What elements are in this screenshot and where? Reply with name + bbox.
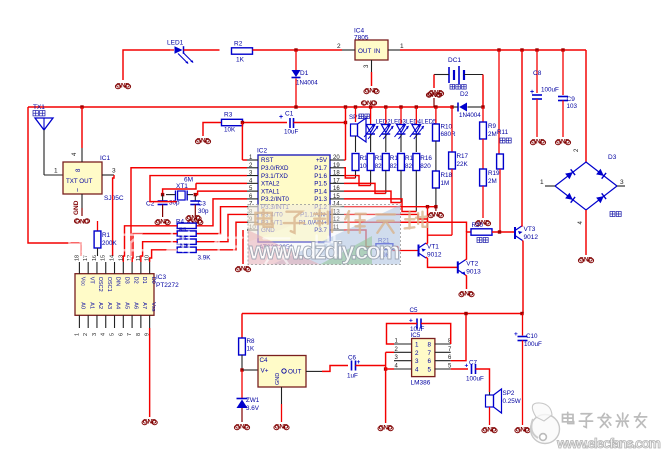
junction D2 cathode / rail end xyxy=(450,105,453,108)
wire R3 to C1 xyxy=(243,122,288,124)
svg-text:IC3: IC3 xyxy=(156,274,167,281)
wire VT2 emitter to ground xyxy=(465,275,466,289)
wire R2 to IC4 pin2 xyxy=(253,49,343,51)
wire IC2 pin8 to resistor network row3 xyxy=(196,214,247,241)
wire IC2 pin6 to resistor network row1 xyxy=(196,199,247,226)
svg-text:P1.7: P1.7 xyxy=(314,165,327,172)
svg-text:VT1: VT1 xyxy=(427,244,439,251)
ground G18 (below ZW1) xyxy=(234,424,249,431)
LED LED3 xyxy=(379,107,406,152)
svg-text:IC1: IC1 xyxy=(100,155,111,162)
ground G22 (below C10) xyxy=(515,427,530,434)
junction pin6 tap xyxy=(464,312,467,315)
resistor R16 820 xyxy=(413,154,432,212)
wire audio +V line y313.5 xyxy=(242,313,522,315)
svg-text:R16: R16 xyxy=(420,155,432,162)
svg-text:IC2: IC2 xyxy=(257,148,268,155)
ground G5 (below C9) xyxy=(555,139,570,146)
capacitor C1 10uF xyxy=(279,111,299,136)
svg-text:4: 4 xyxy=(578,221,584,225)
resistor R15 820 xyxy=(398,154,417,203)
wire LM386 pin6 to +V xyxy=(451,314,466,361)
svg-text:2M: 2M xyxy=(488,131,497,138)
ground G19 (C4 box) xyxy=(274,424,289,431)
watermark tan glyph row xyxy=(255,210,427,233)
svg-text:1: 1 xyxy=(74,333,80,336)
wire junction to C4 box V+ xyxy=(242,369,258,371)
wires network left to IC3 pins xyxy=(123,226,177,262)
wire IC2 pin7 to resistor network row2 xyxy=(196,207,247,234)
svg-text:A2: A2 xyxy=(97,302,103,309)
wire LM386 pin5 to C7 xyxy=(451,368,468,370)
svg-text:14: 14 xyxy=(110,255,116,261)
junction crystal right xyxy=(194,193,197,196)
capacitor C8 100uF xyxy=(530,50,559,137)
svg-text:100uF: 100uF xyxy=(466,376,484,383)
junction audio +V node xyxy=(520,312,523,315)
diode D1 1N4004 xyxy=(292,50,319,107)
junction D2 anode / R9 top xyxy=(481,105,484,108)
wire bridge bottom to ground xyxy=(585,210,587,255)
svg-text:+: + xyxy=(465,363,469,370)
wire C7 to SP2 xyxy=(476,369,490,392)
wire IC1 pin2 to ground xyxy=(81,208,83,216)
svg-text:IC4: IC4 xyxy=(354,28,365,35)
svg-text:R18: R18 xyxy=(441,172,453,179)
svg-text:6: 6 xyxy=(118,333,124,336)
svg-text:VT2: VT2 xyxy=(466,260,478,267)
svg-text:8: 8 xyxy=(428,342,432,349)
svg-text:A4: A4 xyxy=(115,302,121,309)
svg-text:VT3: VT3 xyxy=(524,226,536,233)
ground G11 (below C2) xyxy=(155,219,170,226)
resistor network R4 R5 R6 R7 xyxy=(176,215,211,262)
wire R21 to VT1 base xyxy=(393,246,398,248)
svg-text:15: 15 xyxy=(101,255,107,261)
svg-text:R1: R1 xyxy=(102,232,111,239)
svg-text:100uF: 100uF xyxy=(524,341,542,348)
wire C4 box bottom pin to ground xyxy=(281,387,283,422)
antenna TX1 xyxy=(33,104,53,175)
wire R15 to IC2 pin16 xyxy=(344,191,401,202)
capacitor C3 30p xyxy=(190,195,209,217)
wire IC3 Vss to ground xyxy=(149,328,151,417)
capacitor C2 30p xyxy=(146,195,180,217)
svg-text:C10: C10 xyxy=(526,333,538,340)
resistor R2 1K xyxy=(232,41,253,64)
bridge rectifier D3 xyxy=(540,148,625,225)
svg-text:2: 2 xyxy=(337,43,341,50)
zener ZW1 3.6V xyxy=(237,370,260,422)
svg-text:R19: R19 xyxy=(488,170,500,177)
svg-text:9012: 9012 xyxy=(427,252,442,259)
svg-text:4: 4 xyxy=(415,367,419,374)
svg-text:1uF: 1uF xyxy=(347,373,358,380)
svg-text:3: 3 xyxy=(415,358,419,365)
svg-text:P1.3: P1.3 xyxy=(314,196,327,203)
wire left rail down xyxy=(28,107,81,256)
resistor R18 1M xyxy=(433,171,453,207)
svg-text:SP2: SP2 xyxy=(503,390,515,397)
wire C1 right to +5V drop xyxy=(294,122,346,124)
ground G14 (R18 bottom) xyxy=(428,207,443,219)
watermark elecfans logo xyxy=(531,403,560,444)
wire VT1 collector xyxy=(426,207,428,244)
ground G20 (LM386 input) xyxy=(378,425,393,432)
wire VT1 emitter to VT2 base xyxy=(426,257,458,267)
svg-text:C1: C1 xyxy=(285,111,294,118)
resistor R19 2M xyxy=(480,169,500,218)
svg-text:1K: 1K xyxy=(247,346,256,353)
svg-text:5: 5 xyxy=(428,367,432,374)
crystal XT1 6M xyxy=(166,177,193,201)
svg-text:A5: A5 xyxy=(124,302,130,309)
wire LED1 to R2 xyxy=(184,49,220,51)
resistor R20 xyxy=(471,222,492,243)
watermark white glyph row xyxy=(69,232,341,264)
svg-text:1N4004: 1N4004 xyxy=(459,112,481,119)
svg-text:4: 4 xyxy=(72,152,78,156)
resistor R17 22K xyxy=(449,107,469,235)
svg-text:P3.2/INT0: P3.2/INT0 xyxy=(261,196,289,203)
svg-text:~: ~ xyxy=(75,188,82,192)
capacitor C7 100uF xyxy=(465,360,485,383)
resistor R9 2M xyxy=(480,107,497,169)
wire R17 bottom jog to VT1 collector xyxy=(428,234,453,236)
wire IC2 pin4 XTAL2 xyxy=(196,182,247,184)
svg-text:10K: 10K xyxy=(224,127,236,134)
wire VT3 collector from +V rail xyxy=(521,50,524,227)
svg-text:680R: 680R xyxy=(441,131,457,138)
svg-text:OSC2: OSC2 xyxy=(97,277,103,292)
ground G2 (below IC4) xyxy=(364,88,379,95)
svg-text:1: 1 xyxy=(415,342,419,349)
svg-text:16: 16 xyxy=(333,186,340,192)
wire antenna to IC1 pin1 xyxy=(44,174,63,176)
junction crystal left xyxy=(161,193,164,196)
svg-text:2: 2 xyxy=(574,148,580,152)
svg-text:10uF: 10uF xyxy=(410,326,425,333)
svg-text:LM386: LM386 xyxy=(411,380,431,387)
svg-text:V+: V+ xyxy=(261,368,269,375)
ground G6 (below bridge D3) xyxy=(578,257,593,264)
svg-text:A1: A1 xyxy=(88,302,94,309)
svg-text:1M: 1M xyxy=(441,180,450,187)
svg-text:P3.0/RXD: P3.0/RXD xyxy=(261,165,289,172)
svg-text:D3: D3 xyxy=(608,154,617,161)
wire IC1 pin3 down to IC3 xyxy=(113,175,114,256)
svg-text:D1: D1 xyxy=(141,277,147,284)
junction R8/ZW1/C4 box xyxy=(240,368,243,371)
ground G10 (below IC1, rotated label) xyxy=(73,200,90,225)
svg-text:R10: R10 xyxy=(441,124,453,131)
LED LED2 xyxy=(364,107,391,152)
svg-text:30p: 30p xyxy=(169,200,180,207)
resistor R10 680R xyxy=(433,107,457,171)
svg-text:R3: R3 xyxy=(224,112,233,119)
resistor R11 xyxy=(497,50,512,233)
svg-text:TX1: TX1 xyxy=(33,104,45,111)
svg-text:100uF: 100uF xyxy=(541,87,559,94)
svg-text:C5: C5 xyxy=(410,307,419,314)
svg-text:19: 19 xyxy=(333,163,340,169)
watermark dzdiy collage box xyxy=(248,205,401,265)
svg-text:LED1: LED1 xyxy=(167,40,184,47)
svg-text:OUT: OUT xyxy=(358,48,371,55)
svg-text:20: 20 xyxy=(333,155,340,161)
junction pin14/R18 xyxy=(434,205,437,208)
junction pin14/VT1 collector xyxy=(426,205,429,208)
svg-text:Vcc: Vcc xyxy=(80,277,86,286)
svg-text:OSC1: OSC1 xyxy=(106,277,112,292)
ground G15 (below R19) xyxy=(475,220,490,227)
svg-text:TXT OUT: TXT OUT xyxy=(66,178,93,185)
svg-text:7: 7 xyxy=(428,350,432,357)
watermark elecfans glyph row xyxy=(563,412,647,427)
junction rail dots xyxy=(80,105,83,108)
amplifier IC5 LM386 xyxy=(394,332,452,387)
svg-text:4: 4 xyxy=(101,333,107,336)
wire C4 box OUT to C6 xyxy=(306,366,348,372)
transistor VT1 9012 xyxy=(393,243,442,259)
junction dots on +V rail xyxy=(497,48,500,51)
svg-text:2M: 2M xyxy=(488,178,497,185)
svg-text:DC1: DC1 xyxy=(448,57,461,64)
svg-text:Vss: Vss xyxy=(150,302,156,311)
wire DC1 left to ground xyxy=(433,75,435,89)
svg-text:PT2272: PT2272 xyxy=(156,282,179,289)
svg-text:R8: R8 xyxy=(247,338,256,345)
svg-text:D0: D0 xyxy=(150,277,156,284)
transistor VT2 9013 xyxy=(458,260,481,276)
wire top-left feed to GND xyxy=(123,50,170,80)
svg-text:17: 17 xyxy=(333,178,340,184)
wire DC1 right down to D2 xyxy=(482,75,484,108)
ground G7 (left of R3) xyxy=(195,138,210,145)
module IC1 SJ05C transmitter xyxy=(54,148,124,208)
svg-text:0.25W: 0.25W xyxy=(503,398,521,405)
svg-text:C8: C8 xyxy=(533,70,542,77)
svg-text:GND: GND xyxy=(275,373,281,385)
svg-text:200K: 200K xyxy=(102,240,118,247)
svg-text:103: 103 xyxy=(567,103,578,110)
svg-text:R9: R9 xyxy=(488,123,497,130)
svg-text:D1: D1 xyxy=(300,70,309,77)
resistor R12 100 xyxy=(352,154,371,179)
svg-text:15: 15 xyxy=(333,194,340,200)
svg-text:3: 3 xyxy=(92,333,98,336)
wire IC2 pin3 to crystal area xyxy=(150,176,247,202)
wire ground rail y107 xyxy=(28,106,452,108)
svg-text:SJ05C: SJ05C xyxy=(104,195,124,202)
resistor R14 820 xyxy=(382,154,401,194)
svg-text:1K: 1K xyxy=(236,57,245,64)
wire XTAL1 to IC2 pin5 xyxy=(195,191,247,195)
ground G8 (on rail) xyxy=(361,100,376,107)
svg-text:GND: GND xyxy=(75,219,89,226)
svg-text:820: 820 xyxy=(420,163,431,170)
svg-text:XTAL2: XTAL2 xyxy=(261,181,280,188)
module C4 voice chip xyxy=(258,356,306,388)
wire R20 right to VT3 base xyxy=(492,231,515,233)
wire IC2 pin2 down-left to IC3 xyxy=(131,168,247,256)
svg-text:R11: R11 xyxy=(497,129,509,136)
LED LED4 xyxy=(395,107,422,152)
ground G4 (below C8) xyxy=(530,139,545,146)
svg-text:2: 2 xyxy=(415,350,419,357)
wire IC2 pin1 from R3/C1 junction xyxy=(241,123,243,161)
wire IC2 pin13 to VT1 collector line xyxy=(344,214,428,219)
capacitor C6 1uF xyxy=(347,355,361,380)
ground G21 (below SP2) xyxy=(482,427,497,434)
wire R16 to IC2 pin15 xyxy=(344,199,416,212)
svg-text:A0: A0 xyxy=(80,302,86,309)
mcu IC2 AT89C2051 xyxy=(247,148,344,252)
svg-text:18: 18 xyxy=(333,171,340,177)
resistor R3 10K xyxy=(222,112,243,134)
resistor R21 3.9K xyxy=(376,238,393,260)
svg-text:3: 3 xyxy=(620,179,624,186)
LED LED1 xyxy=(167,40,194,65)
wire IC4 pin3 to ground xyxy=(371,72,373,86)
svg-text:A6: A6 xyxy=(132,302,138,309)
svg-text:+: + xyxy=(279,114,283,121)
junction R3/C1 to IC2 pin1 xyxy=(241,121,244,124)
svg-text:C6: C6 xyxy=(348,355,357,362)
svg-text:6: 6 xyxy=(428,358,432,365)
wire +V rail corner down to bridge top xyxy=(585,50,587,162)
svg-text:1N4004: 1N4004 xyxy=(296,80,318,87)
wire IC2 pin14 to R18 bottom xyxy=(344,206,436,208)
svg-text:7: 7 xyxy=(127,333,133,336)
wire IC2 pin12 to VT2 collector node xyxy=(344,222,467,232)
svg-text:R20: R20 xyxy=(472,222,484,229)
resistor R1 200K xyxy=(94,221,117,256)
svg-text:VT: VT xyxy=(88,277,94,285)
svg-text:3: 3 xyxy=(364,64,370,68)
svg-text:3.6V: 3.6V xyxy=(246,405,260,412)
svg-text:+5V: +5V xyxy=(316,157,328,164)
decoder IC3 PT2272 xyxy=(74,255,179,336)
wire C6 to LM386 input node xyxy=(356,365,386,367)
wire +V top rail from IC4 pin1 xyxy=(400,49,586,51)
wire R12 to IC2 pin19 xyxy=(344,168,356,178)
svg-text:8: 8 xyxy=(136,333,142,336)
svg-text:D2: D2 xyxy=(132,277,138,284)
svg-text:2: 2 xyxy=(83,333,89,336)
svg-text:P1.4: P1.4 xyxy=(314,188,327,195)
svg-text:OUT: OUT xyxy=(288,369,301,376)
wire VT2 collector to R20 left xyxy=(465,232,471,260)
resistor R8 1K xyxy=(239,338,255,370)
ground G1 (left of LED1) xyxy=(115,83,130,90)
capacitor C10 100uF xyxy=(514,314,542,426)
svg-text:P3.1/TXD: P3.1/TXD xyxy=(261,173,288,180)
diode D2 1N4004 xyxy=(452,91,483,119)
svg-text:10uF: 10uF xyxy=(284,129,299,136)
svg-text:www.elecfans.com: www.elecfans.com xyxy=(556,435,661,451)
ground G16 (VT2 emitter) xyxy=(459,291,474,298)
ground G13 (IC2 pin10) xyxy=(235,266,250,273)
svg-text:3.9K: 3.9K xyxy=(198,255,212,262)
svg-text:D2: D2 xyxy=(460,91,469,98)
wire R3 left to ground xyxy=(203,123,222,137)
resistor R13 820 xyxy=(367,154,386,186)
svg-text:3: 3 xyxy=(112,168,116,175)
wire IC1 pin4 to rail xyxy=(81,107,83,148)
wire IC2 pin11 to R21 xyxy=(344,230,374,247)
wire R8 top xyxy=(241,314,243,339)
ground G12 (below C3) xyxy=(188,219,203,226)
junction LM386 input node xyxy=(384,367,387,370)
svg-text:22K: 22K xyxy=(457,161,469,168)
svg-text:+: + xyxy=(530,89,534,96)
svg-text:IN: IN xyxy=(374,48,381,55)
capacitor C9 103 xyxy=(558,50,578,137)
junction R20/R11/VT3 xyxy=(498,230,501,233)
svg-text:+: + xyxy=(514,331,518,338)
svg-text:R5: R5 xyxy=(179,228,186,234)
battery DC1 (battery socket) xyxy=(434,57,483,89)
svg-text:D3: D3 xyxy=(124,277,130,284)
svg-text:9012: 9012 xyxy=(524,234,539,241)
capacitor C5 10uF xyxy=(387,307,451,344)
ground G9 (on rail right) xyxy=(426,92,441,107)
svg-text:7: 7 xyxy=(448,347,452,353)
svg-text:P1.5: P1.5 xyxy=(314,181,327,188)
svg-text:1: 1 xyxy=(400,43,404,50)
svg-text:C4: C4 xyxy=(260,357,269,364)
svg-text:1: 1 xyxy=(54,168,58,175)
wire IC2 pin10 to ground xyxy=(242,230,244,264)
svg-text:1: 1 xyxy=(540,179,544,186)
svg-text:A7: A7 xyxy=(141,302,147,309)
junction C1 line at +5V drop xyxy=(344,121,347,124)
ground G17 (IC3 Vss) xyxy=(142,419,157,426)
wire crystal top link xyxy=(163,183,196,194)
transistor VT3 9012 xyxy=(515,226,538,242)
svg-text:XTAL1: XTAL1 xyxy=(261,188,280,195)
LED LED5 xyxy=(410,107,437,152)
svg-text:C9: C9 xyxy=(567,96,576,103)
svg-text:www.dzdiy.com: www.dzdiy.com xyxy=(248,238,400,265)
svg-text:GND: GND xyxy=(73,200,80,215)
wire R13 to IC2 pin18 xyxy=(344,176,371,186)
wire VT3 emitter down to audio supply node xyxy=(522,241,525,314)
svg-text:P1.6: P1.6 xyxy=(314,173,327,180)
buzzer SP1 xyxy=(349,107,369,152)
wire IC2 pin9 to resistor network row4 xyxy=(196,222,247,250)
wire +5V drop from rail to IC2 pin20 xyxy=(345,107,347,160)
ground G3 (left of DC1) xyxy=(428,90,443,97)
svg-text:5: 5 xyxy=(110,333,116,336)
wire R14 to IC2 pin17 xyxy=(344,183,386,193)
svg-text:DIN: DIN xyxy=(115,277,121,287)
svg-text:9013: 9013 xyxy=(466,268,481,275)
svg-text:RST: RST xyxy=(261,157,274,164)
junction at D1 top xyxy=(294,48,297,51)
svg-text:A3: A3 xyxy=(106,302,112,309)
svg-text:ZW1: ZW1 xyxy=(246,397,260,404)
svg-text:R2: R2 xyxy=(234,41,243,48)
regulator IC4 7805 xyxy=(337,28,404,73)
speaker SP2 0.25W xyxy=(486,389,521,425)
wire input node branches xyxy=(386,352,394,423)
svg-text:R17: R17 xyxy=(457,153,469,160)
